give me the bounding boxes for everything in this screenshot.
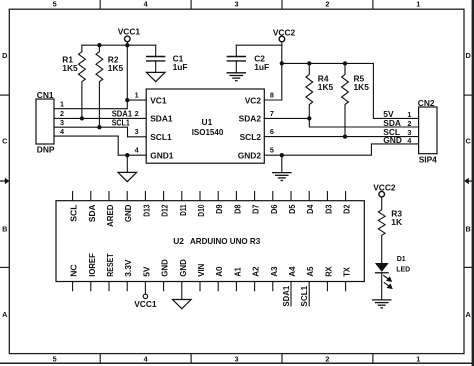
wire VCC2 vertical / U1 pin8 (264, 42, 282, 100)
wire CN1.4 to U1.4 (GND1) (54, 136, 146, 155)
svg-text:SCL1: SCL1 (299, 285, 309, 306)
svg-text:1K5: 1K5 (108, 63, 124, 73)
svg-text:D6: D6 (269, 204, 279, 214)
U2 top pin D8 stub (235, 191, 237, 201)
svg-text:VCC1: VCC1 (134, 299, 157, 309)
node junction rail/VCC2 vertical (280, 61, 284, 65)
svg-text:5: 5 (53, 0, 57, 9)
capacitor C1 (146, 45, 187, 72)
svg-text:SCL: SCL (69, 205, 79, 222)
node junction rail/R5 (343, 61, 347, 65)
U2 bottom pin GND stub (181, 282, 183, 300)
ground (triangle) below U1 GND1 (118, 172, 137, 181)
wire net SDA1 (CN1.2 to U1.2) (54, 117, 146, 119)
U2 top pin D11 stub (181, 191, 183, 201)
svg-text:LED: LED (396, 267, 410, 274)
op-amp/IC U1 ISO1540 (135, 89, 274, 163)
U2 top pin GND stub (126, 191, 128, 201)
svg-text:ARED: ARED (105, 205, 115, 228)
svg-text:VCC1: VCC1 (118, 27, 141, 37)
svg-text:SIP4: SIP4 (419, 154, 437, 164)
svg-text:SDA1: SDA1 (150, 114, 173, 124)
svg-text:SCL1: SCL1 (150, 132, 172, 142)
svg-text:A2: A2 (251, 266, 261, 277)
wire net SDA2 (U1.7 to CN2.2) (264, 118, 418, 127)
svg-text:VC1: VC1 (150, 95, 167, 105)
svg-text:A0: A0 (214, 266, 224, 277)
wire U1 pin1 stub (127, 99, 146, 101)
U2 top pin D3 stub (326, 191, 328, 201)
resistor R2 (96, 45, 124, 127)
svg-text:3: 3 (60, 118, 64, 127)
svg-text:VIN: VIN (196, 264, 206, 277)
svg-text:A1: A1 (232, 267, 242, 277)
svg-text:IOREF: IOREF (87, 253, 97, 277)
svg-text:B: B (2, 225, 7, 234)
svg-text:D11: D11 (178, 204, 188, 215)
svg-text:GND: GND (123, 205, 133, 223)
svg-text:D1: D1 (397, 256, 406, 263)
node junction pin1/VCC1 drop (125, 98, 129, 102)
svg-text:2: 2 (325, 0, 329, 9)
U2 bottom pin TX stub (345, 282, 347, 292)
power port VCC1 (below U2 5V pin) (134, 294, 157, 309)
U2 top pin D9 stub (217, 191, 219, 201)
svg-text:2: 2 (60, 109, 64, 118)
svg-text:1: 1 (407, 110, 411, 119)
U2 top pin D7 stub (254, 191, 256, 201)
U2 bottom pin A3 stub (272, 282, 274, 292)
svg-text:3: 3 (135, 127, 139, 136)
U2 bottom pin 5V stub (144, 282, 146, 295)
resistor R3 (378, 197, 402, 263)
svg-text:SDA: SDA (87, 205, 97, 223)
svg-text:SDA1: SDA1 (281, 285, 291, 306)
connector CN1 (DNP) (36, 90, 64, 154)
wire net SCL1 (CN1.3 to U1.3) (54, 127, 146, 137)
svg-text:A5: A5 (305, 266, 315, 277)
svg-text:D10: D10 (196, 204, 206, 216)
svg-text:D: D (466, 51, 471, 60)
svg-text:2: 2 (135, 109, 139, 118)
U2 top pin D4 stub (308, 191, 310, 201)
svg-text:1: 1 (135, 90, 139, 99)
wire net SCL2 (U1.6 to CN2.3) (264, 136, 418, 138)
power port VCC2 (top) (273, 27, 296, 41)
U2 top pin ARED stub (108, 191, 110, 201)
LED D1 (375, 256, 410, 289)
U2 top pin D12 stub (163, 191, 165, 201)
svg-text:SCL1: SCL1 (112, 118, 130, 128)
U2 bottom pin RESET stub (108, 282, 110, 292)
svg-text:2: 2 (407, 119, 411, 128)
ground (earth) below U1 GND2 (272, 173, 292, 181)
wire GND2 drop (281, 155, 283, 172)
capacitor C2 (227, 45, 269, 73)
svg-text:6: 6 (270, 127, 274, 136)
node junction SDA1/R1 (80, 116, 84, 120)
svg-text:1: 1 (416, 354, 420, 363)
node junction GND1 (125, 153, 129, 157)
svg-text:D5: D5 (287, 204, 297, 214)
U2 bottom pin 3.3V stub (126, 282, 128, 292)
U2 bottom pin A1 stub (235, 282, 237, 292)
svg-text:C: C (2, 137, 8, 146)
svg-text:TX: TX (342, 267, 352, 277)
svg-text:D13: D13 (141, 204, 151, 216)
svg-text:D: D (2, 51, 7, 60)
U2 top pin D13 stub (144, 191, 146, 201)
node junction SCL2/R5 (343, 134, 347, 138)
svg-text:D7: D7 (251, 204, 261, 214)
svg-text:VC2: VC2 (245, 95, 262, 105)
wire GND2 (U1.5 to CN2.4) (264, 144, 418, 155)
svg-text:4: 4 (60, 127, 64, 136)
svg-text:1K: 1K (391, 217, 402, 227)
svg-text:GND: GND (178, 259, 188, 277)
ground (earth) below C2 (227, 73, 247, 81)
svg-text:1uF: 1uF (173, 62, 188, 72)
svg-text:VCC2: VCC2 (373, 183, 396, 193)
LED arrows (383, 275, 392, 288)
U2 bottom pin GND stub (163, 282, 165, 292)
svg-text:GND: GND (383, 135, 402, 145)
power port VCC2 (above R3) (373, 183, 396, 197)
svg-text:U1: U1 (202, 117, 213, 127)
U2 bottom pin A5 stub (308, 282, 310, 307)
ground (triangle) below U2 GND pin (173, 300, 192, 309)
U2 bottom pin A4 stub (290, 282, 292, 307)
connector CN2 SIP4 (383, 98, 437, 164)
svg-text:3: 3 (234, 0, 238, 9)
svg-text:SCL2: SCL2 (240, 132, 262, 142)
svg-text:5: 5 (270, 146, 274, 155)
U2 top pin D10 stub (199, 191, 201, 201)
U2 bottom pin A0 stub (217, 282, 219, 292)
svg-text:3: 3 (234, 354, 238, 363)
resistor R5 (342, 63, 370, 136)
svg-text:D8: D8 (232, 204, 242, 214)
U2 top pin SCL stub (72, 191, 74, 201)
svg-text:A4: A4 (287, 266, 297, 277)
U2 bottom pin NC stub (72, 282, 74, 292)
svg-text:ARDUINO UNO R3: ARDUINO UNO R3 (190, 236, 261, 246)
svg-text:C: C (466, 137, 472, 146)
svg-text:A: A (466, 310, 472, 319)
node junction rail/R4 (307, 61, 311, 65)
U2 top pin D2 stub (345, 191, 347, 201)
svg-text:SDA2: SDA2 (239, 114, 262, 124)
svg-text:7: 7 (270, 109, 274, 118)
wire VCC1 rail (82, 44, 156, 46)
svg-text:B: B (466, 225, 471, 234)
wire C2 rail (236, 44, 281, 46)
wire VCC2 distribution rail to CN2 5V (282, 63, 419, 118)
U2 bottom pin IOREF stub (90, 282, 92, 292)
svg-text:2: 2 (325, 354, 329, 363)
svg-text:D9: D9 (214, 204, 224, 214)
svg-text:D3: D3 (323, 204, 333, 214)
svg-text:DNP: DNP (37, 144, 55, 154)
svg-text:NC: NC (69, 264, 79, 276)
node junction VCC1 rail / vertical (125, 43, 129, 47)
svg-text:1K5: 1K5 (318, 82, 334, 92)
wire VCC1 vertical to CN1 pin1 (54, 42, 127, 109)
U2 top pin D6 stub (272, 191, 274, 201)
svg-text:GND1: GND1 (150, 151, 174, 161)
svg-text:8: 8 (270, 90, 274, 99)
svg-text:U2: U2 (173, 236, 184, 246)
resistor R4 (306, 63, 334, 118)
svg-text:5: 5 (53, 354, 57, 363)
svg-text:1K5: 1K5 (62, 63, 78, 73)
svg-text:CN1: CN1 (37, 90, 54, 100)
resistor R1 (62, 45, 85, 118)
U2 top pin SDA stub (90, 191, 92, 201)
U2 bottom pin A2 stub (254, 282, 256, 292)
svg-text:CN2: CN2 (418, 98, 435, 108)
svg-text:1K5: 1K5 (354, 82, 370, 92)
svg-text:ISO1540: ISO1540 (192, 127, 224, 137)
U2 bottom pin RX stub (326, 282, 328, 292)
svg-text:5V: 5V (141, 266, 151, 277)
svg-text:D4: D4 (305, 204, 315, 214)
svg-text:3.3V: 3.3V (123, 259, 133, 277)
svg-text:D2: D2 (342, 204, 352, 214)
svg-text:1uF: 1uF (254, 62, 269, 72)
svg-text:4: 4 (407, 136, 411, 145)
svg-text:1: 1 (416, 0, 420, 9)
svg-text:A3: A3 (269, 266, 279, 277)
U2 top pin D5 stub (290, 191, 292, 201)
wire GND1 drop (126, 155, 128, 172)
svg-text:VCC2: VCC2 (273, 27, 296, 37)
node junction VCC1 rail / R2 (97, 43, 101, 47)
IC U2 ARDUINO UNO R3 (56, 191, 364, 307)
node junction SCL1/R2 (97, 125, 101, 129)
node junction SDA2/R4 (307, 116, 311, 120)
svg-text:1: 1 (60, 100, 64, 109)
svg-text:GND2: GND2 (238, 151, 262, 161)
svg-text:RX: RX (323, 266, 333, 277)
svg-text:D12: D12 (160, 204, 170, 216)
power port VCC1 (top) (118, 27, 141, 42)
ground (triangle) below C1 (146, 72, 165, 81)
wire LED cathode to ground (381, 273, 383, 300)
node junction GND2 (280, 153, 284, 157)
svg-text:GND: GND (160, 259, 170, 277)
ground (earth) below LED (372, 300, 392, 308)
svg-text:RESET: RESET (105, 253, 115, 277)
svg-text:A: A (2, 310, 8, 319)
svg-text:4: 4 (135, 146, 139, 155)
U2 bottom pin VIN stub (199, 282, 201, 292)
